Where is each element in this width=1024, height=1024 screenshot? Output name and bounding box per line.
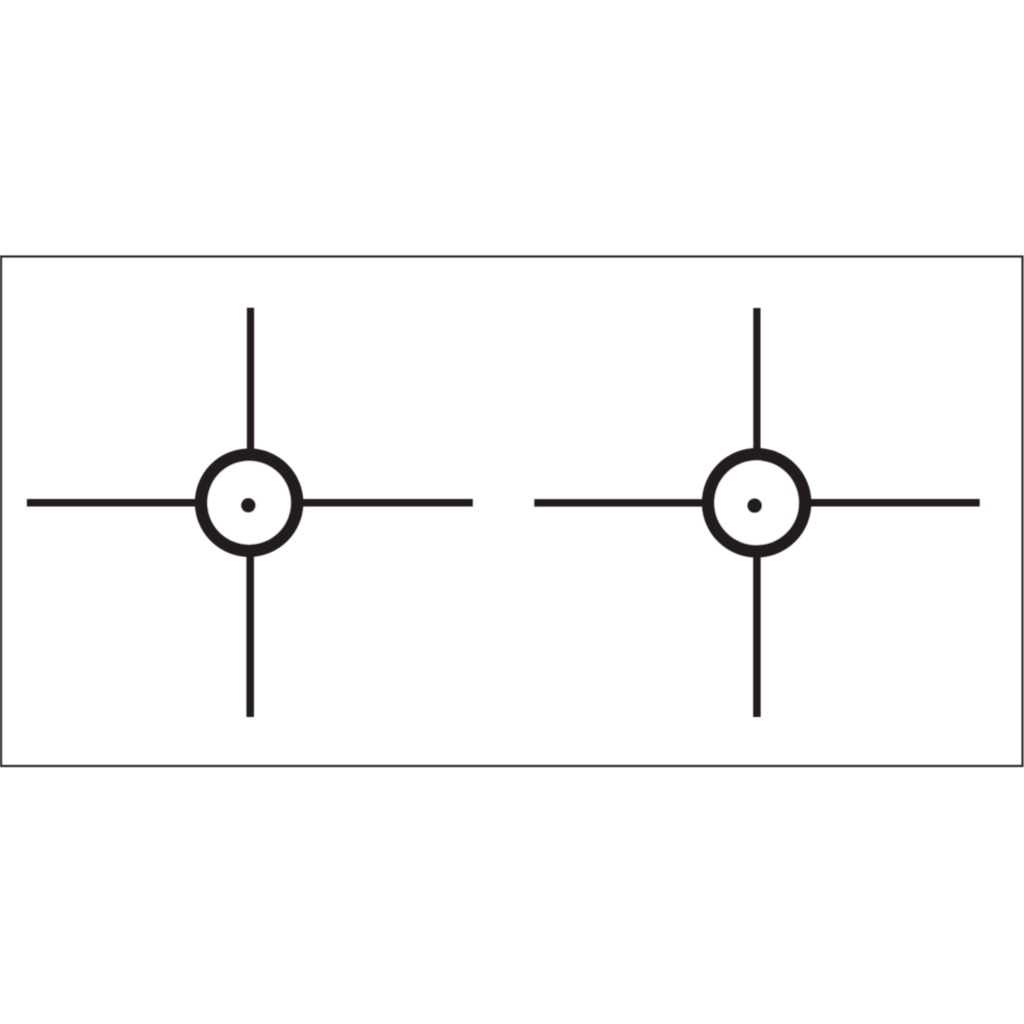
wire (bottom lead of terminal T2) <box>753 502 761 717</box>
wire (right lead of terminal T2) <box>757 499 980 507</box>
wire (bottom lead of terminal T1) <box>246 502 254 717</box>
terminal T1 circle <box>201 455 297 551</box>
terminal T2 circle <box>708 454 805 551</box>
wire (top lead of terminal T2) <box>753 308 760 502</box>
wire (left lead of terminal T1) <box>27 499 249 507</box>
wire (left lead of terminal T2) <box>534 499 756 507</box>
terminal T2 center dot <box>747 498 762 513</box>
wire (right lead of terminal T1) <box>249 499 473 507</box>
terminal T1 center dot <box>241 498 256 513</box>
wire (top lead of terminal T1) <box>247 308 254 502</box>
